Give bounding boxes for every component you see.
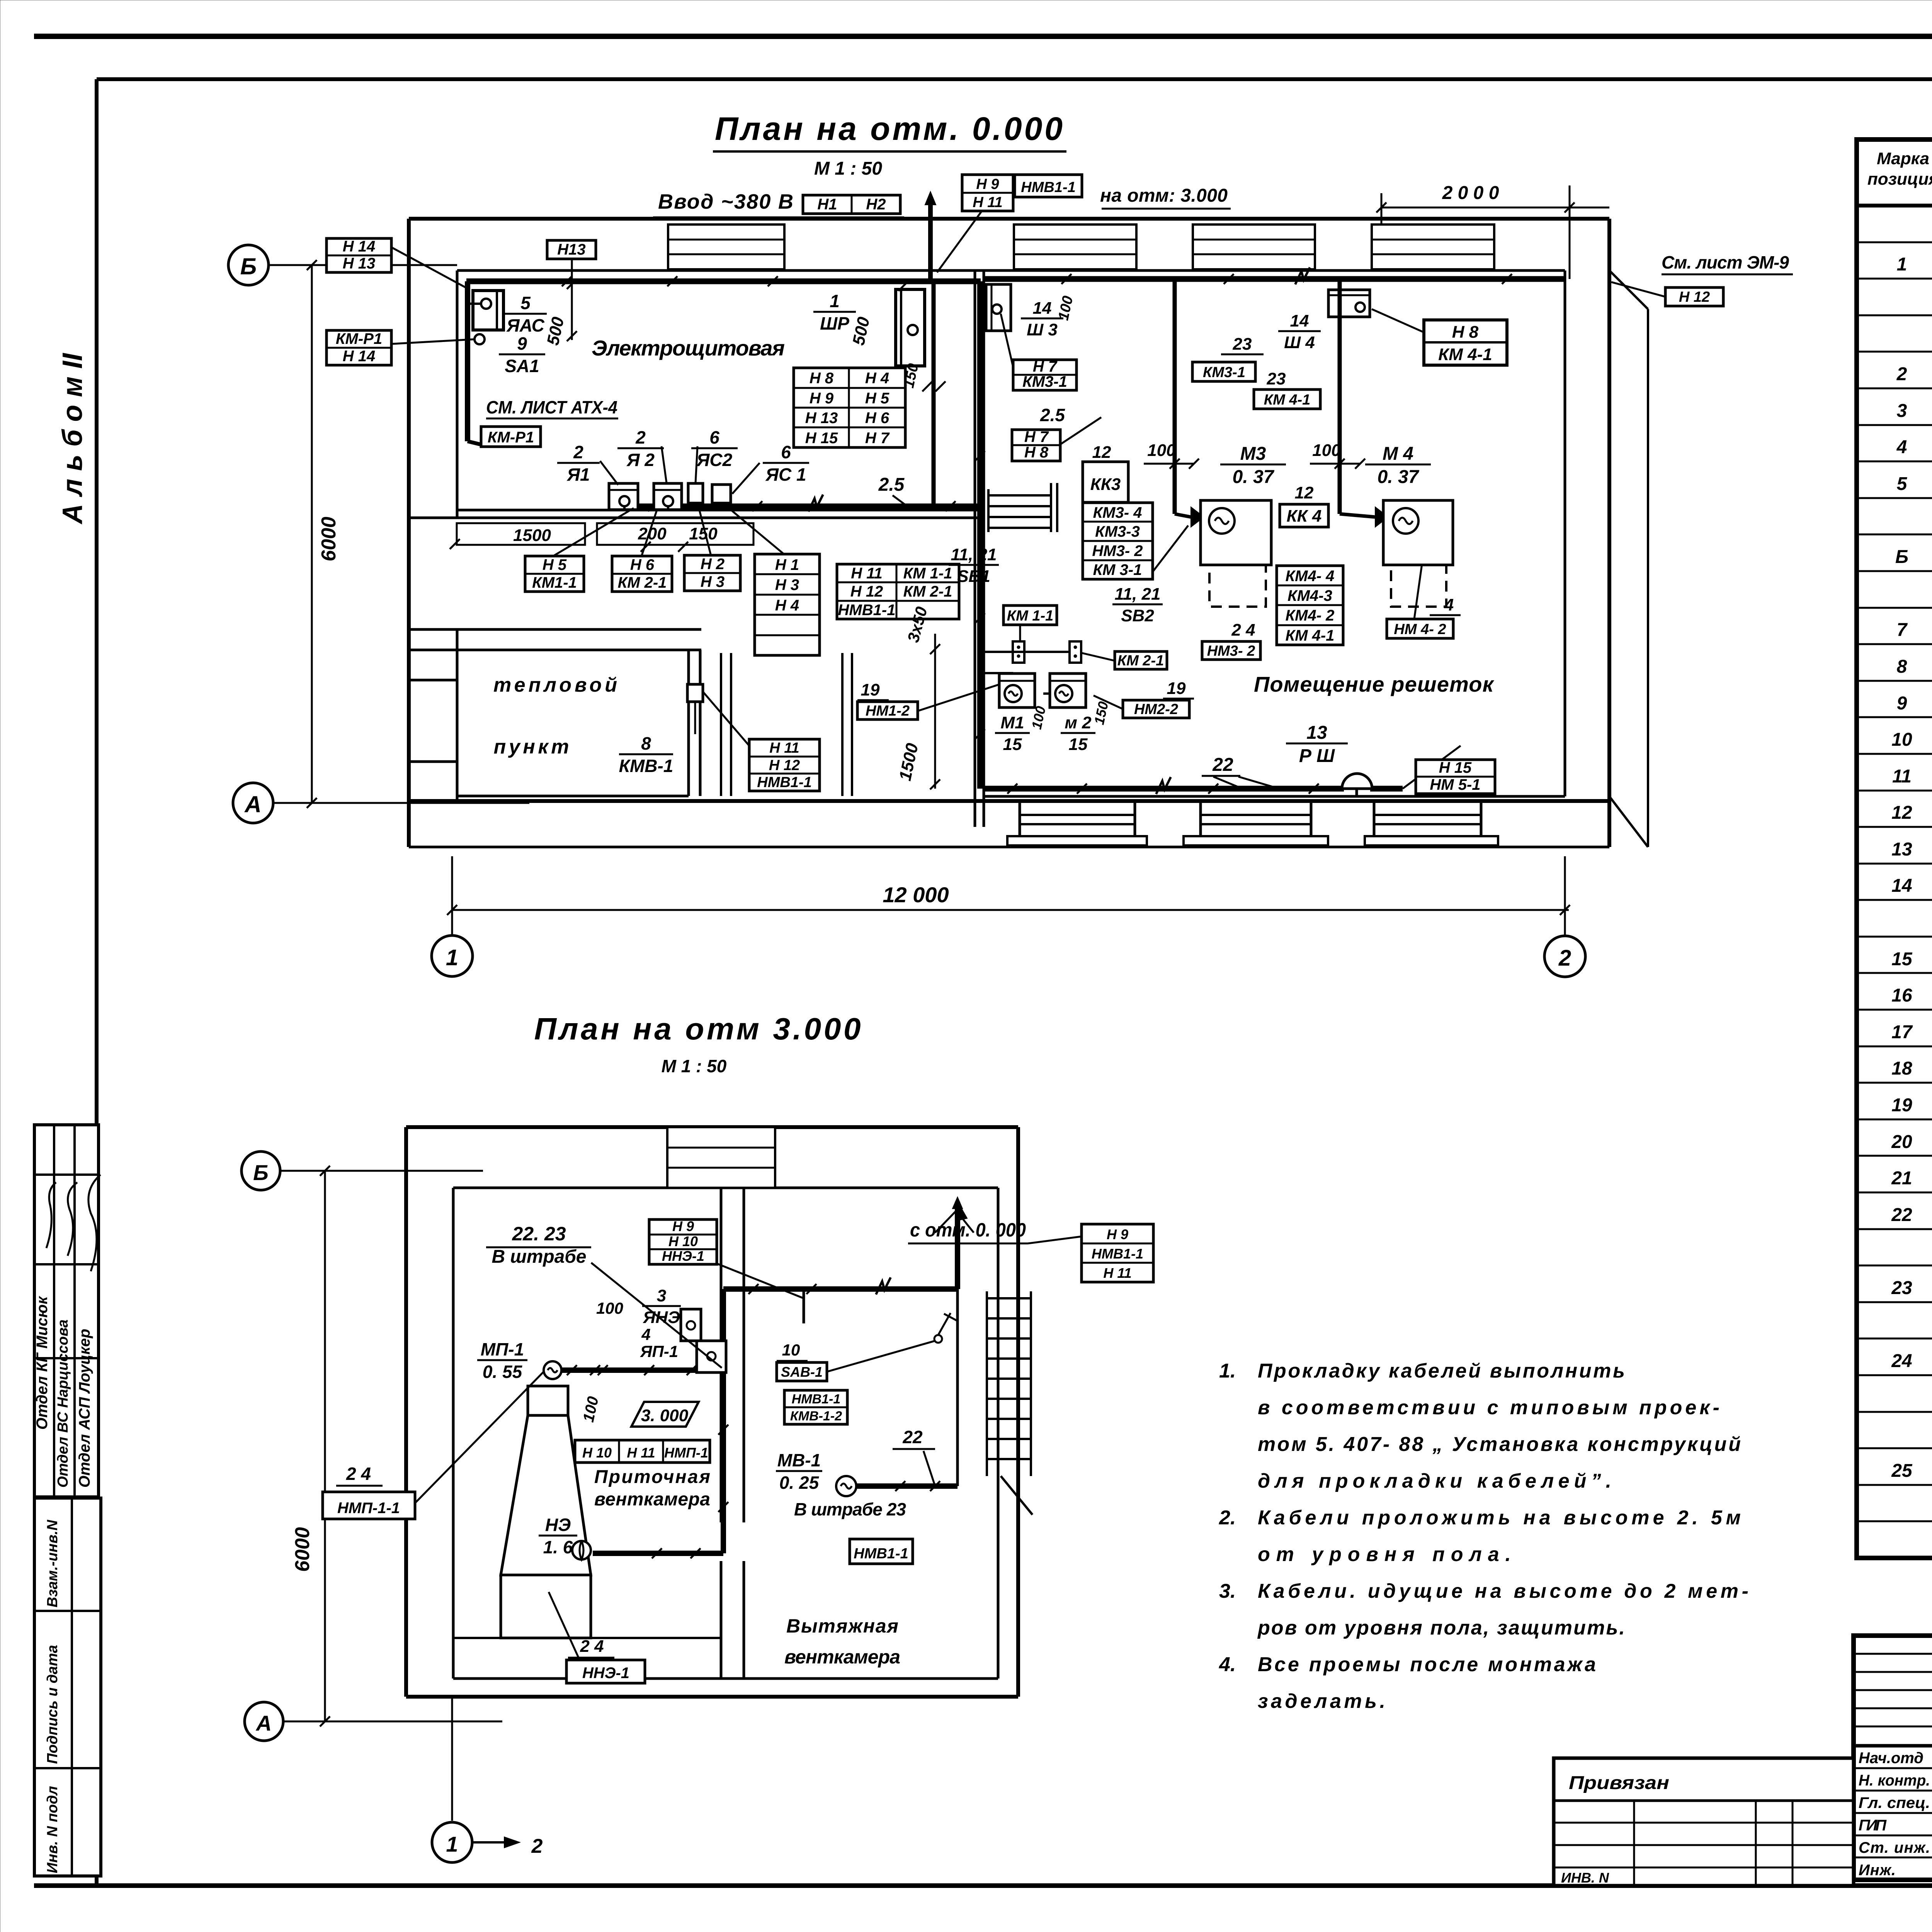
svg-text:НМВ1-1: НМВ1-1 <box>838 602 896 619</box>
svg-text:1: 1 <box>446 945 458 970</box>
table row 6: Я 5III-3574 УХЛ4 <box>1897 399 1932 421</box>
svg-text:3: 3 <box>657 1286 666 1305</box>
svg-text:Вытяжная: Вытяжная <box>786 1615 898 1637</box>
vvod boxes N1 N2 <box>803 195 900 214</box>
device Ya1 <box>609 483 638 510</box>
label M2/15 <box>1061 713 1095 754</box>
sheet bottom frame line <box>34 1883 1932 1888</box>
label 5/YaAS <box>504 293 547 335</box>
svg-text:ШР: ШР <box>820 313 849 333</box>
svg-text:НМ2-2: НМ2-2 <box>1134 701 1178 718</box>
svg-text:заделать.: заделать. <box>1258 1690 1385 1713</box>
svg-text:ЯС 1: ЯС 1 <box>765 464 806 485</box>
svg-text:2.5: 2.5 <box>878 474 905 495</box>
svg-text:КМ 1-1: КМ 1-1 <box>1007 608 1054 624</box>
plan1 grate group 3 <box>1365 801 1498 845</box>
sheet top border line <box>34 34 1932 39</box>
svg-text:Ввод ~380 В: Ввод ~380 В <box>658 190 793 213</box>
plan2 left wall inner <box>452 1188 455 1679</box>
label MV-1/0.25 <box>776 1450 822 1493</box>
svg-text:Н 2: Н 2 <box>701 556 724 573</box>
notes text block <box>1219 1360 1748 1713</box>
plan1 window 2 <box>1014 224 1136 269</box>
box KM3 group <box>1083 503 1153 579</box>
motor M2 box <box>1050 673 1086 707</box>
svg-text:КМ4-3: КМ4-3 <box>1287 587 1332 604</box>
axis line B plan2 <box>280 1170 483 1172</box>
svg-text:8: 8 <box>1897 656 1907 677</box>
table row 2: Шкаф силовой распреде <box>1897 253 1932 275</box>
svg-text:КМ-Р1: КМ-Р1 <box>336 330 382 347</box>
motor unit M3 <box>1201 500 1271 607</box>
svg-text:10: 10 <box>1891 730 1912 750</box>
label box N8 group <box>794 368 905 447</box>
svg-text:Я 2: Я 2 <box>626 450 655 470</box>
svg-text:Н 6: Н 6 <box>865 410 889 427</box>
svg-text:НМВ1-1: НМВ1-1 <box>757 774 811 791</box>
table row 16: Пост управления ПКЕ-722-У2' <box>1892 764 1932 787</box>
svg-text:КМ-Р1: КМ-Р1 <box>488 429 534 446</box>
svg-text:КМ 4-1: КМ 4-1 <box>1264 392 1311 408</box>
svg-text:М 1 : 50: М 1 : 50 <box>814 158 882 179</box>
plan1 porch diagonal bottom <box>1609 796 1648 847</box>
plan2 cable inner wall vertical <box>721 1289 726 1553</box>
table row 8: ЯОУ 9501 - 000 4 Б <box>1897 472 1932 494</box>
plan2 inner wall <box>720 1188 723 1522</box>
svg-text:КК3: КК3 <box>1090 475 1121 494</box>
svg-text:Прокладку кабелей выполнит: Прокладку кабелей выполнить <box>1258 1360 1625 1382</box>
svg-text:100: 100 <box>1147 441 1176 460</box>
svg-text:2: 2 <box>1896 364 1907 384</box>
box N2/N3 <box>684 555 740 591</box>
plan1 grate group 1 <box>1007 801 1147 845</box>
plan1 window 1 <box>668 224 784 269</box>
motor M4 <box>1393 508 1418 534</box>
svg-text:Привязан: Привязан <box>1569 1773 1669 1793</box>
svg-text:2 0 0 0: 2 0 0 0 <box>1442 183 1499 203</box>
svg-text:4: 4 <box>1896 437 1907 457</box>
frame top horizontal <box>97 77 1932 81</box>
svg-text:Н 15: Н 15 <box>805 430 838 447</box>
svg-text:6: 6 <box>781 442 791 462</box>
svg-text:НМВ1-1: НМВ1-1 <box>792 1392 841 1406</box>
svg-text:том 5. 407- 88 „ Установка: том 5. 407- 88 „ Установка конструкций <box>1258 1433 1741 1456</box>
plan1 corridor wall <box>841 653 844 796</box>
svg-text:18: 18 <box>1891 1058 1912 1079</box>
svg-text:КМ 2-1: КМ 2-1 <box>1117 653 1164 669</box>
svg-text:М3: М3 <box>1240 444 1266 464</box>
svg-text:2 4: 2 4 <box>580 1637 604 1656</box>
table row 27: Стойка К310 У3 <box>1891 1167 1932 1189</box>
svg-text:22: 22 <box>1212 755 1233 775</box>
svg-text:А: А <box>255 1711 272 1735</box>
svg-text:9: 9 <box>517 333 527 354</box>
svg-text:14: 14 <box>1290 311 1309 330</box>
svg-text:1: 1 <box>446 1832 458 1856</box>
table row 30: Труба полиэтиленовая <box>1891 1276 1932 1299</box>
svg-text:8: 8 <box>641 733 651 753</box>
svg-text:Н 12: Н 12 <box>1679 289 1710 305</box>
switch SAB-1 on wall <box>934 1313 957 1343</box>
svg-text:15: 15 <box>1891 949 1913 969</box>
cable elektro bottom run <box>624 503 981 509</box>
plan1 stair hatch <box>988 483 1057 532</box>
device drops to cable <box>623 506 626 510</box>
svg-text:Взам.-инв.N: Взам.-инв.N <box>44 1519 61 1607</box>
svg-text:КМ 2-1: КМ 2-1 <box>903 583 952 600</box>
table header texts <box>1867 149 1932 200</box>
svg-text:100: 100 <box>596 1299 623 1317</box>
svg-text:Ш 3: Ш 3 <box>1027 320 1058 339</box>
plan1 teplo right wall <box>687 650 690 796</box>
svg-text:Н 11: Н 11 <box>973 194 1002 211</box>
mark 3.000 <box>631 1402 699 1427</box>
svg-text:2.5: 2.5 <box>1040 405 1065 425</box>
svg-text:ЯАС: ЯАС <box>506 315 544 335</box>
label box N13 <box>547 240 596 259</box>
svg-text:Н 10: Н 10 <box>668 1233 698 1249</box>
label 11,21 SB2 <box>1112 585 1163 625</box>
plan2 left wall outer <box>404 1127 408 1697</box>
box N9/NMV1-1/N11 right <box>1082 1224 1153 1282</box>
svg-text:НМ 5-1: НМ 5-1 <box>1430 776 1480 793</box>
plan1 top wall outer <box>409 217 1609 221</box>
box KM2-1 <box>1115 651 1167 669</box>
plan2 top wall inner <box>453 1187 998 1189</box>
svg-text:Н 7: Н 7 <box>1033 358 1058 375</box>
cable reshetki bottom run <box>984 786 1344 792</box>
svg-text:Р Ш: Р Ш <box>1299 746 1335 766</box>
svg-text:Н 12: Н 12 <box>850 583 883 600</box>
label M1/15 <box>995 713 1030 754</box>
svg-text:Н 6: Н 6 <box>630 556 655 573</box>
svg-text:Н 5: Н 5 <box>865 390 889 407</box>
svg-text:0. 25: 0. 25 <box>779 1473 820 1493</box>
svg-text:в соответствии с типовым п: в соответствии с типовым проек- <box>1258 1396 1719 1419</box>
svg-text:КМ4- 4: КМ4- 4 <box>1286 568 1335 585</box>
svg-text:КМ 1-1: КМ 1-1 <box>903 565 952 582</box>
plan1 right wall outer <box>1607 219 1611 847</box>
svg-text:22: 22 <box>902 1427 923 1447</box>
svg-text:13: 13 <box>1891 839 1912 860</box>
left stamp signatures <box>46 1182 56 1248</box>
svg-text:М1: М1 <box>1000 713 1024 732</box>
svg-text:SAB-1: SAB-1 <box>781 1364 823 1380</box>
label M3/0.37 <box>1220 444 1286 487</box>
svg-text:пункт: пункт <box>494 736 569 758</box>
post SB2 <box>1070 641 1081 663</box>
svg-text:ГИП: ГИП <box>1859 1817 1887 1834</box>
svg-text:ЯНЭ: ЯНЭ <box>643 1308 680 1327</box>
plan2 top wall outer <box>406 1125 1018 1129</box>
axis circle B plan1 <box>228 245 269 285</box>
plan2 window <box>667 1127 775 1188</box>
connections M1 M2 SB <box>980 651 1070 653</box>
label 14/Sh4 <box>1278 311 1321 352</box>
cabinet ShR <box>896 289 925 366</box>
svg-text:2 4: 2 4 <box>346 1464 371 1484</box>
svg-text:Н 9: Н 9 <box>1107 1226 1128 1242</box>
svg-text:НМ3- 2: НМ3- 2 <box>1092 543 1143 560</box>
box N12 <box>1665 287 1723 306</box>
svg-text:2 4: 2 4 <box>1231 621 1255 639</box>
svg-text:Н 10: Н 10 <box>582 1445 612 1461</box>
svg-text:КМ3-3: КМ3-3 <box>1095 523 1140 540</box>
svg-text:23: 23 <box>1267 369 1286 388</box>
svg-text:24: 24 <box>1891 1351 1912 1371</box>
label 3/YaNE <box>642 1286 681 1327</box>
svg-text:1.: 1. <box>1219 1360 1236 1382</box>
box N7/N8 <box>1012 429 1060 461</box>
motor M1 box <box>999 673 1035 707</box>
svg-text:А: А <box>244 791 261 817</box>
svg-text:2: 2 <box>1558 946 1571 971</box>
svg-text:1: 1 <box>1897 254 1907 275</box>
plan1 vertical dim line 6000 <box>311 265 313 803</box>
svg-text:МВ-1: МВ-1 <box>777 1450 821 1470</box>
svg-text:16: 16 <box>1891 985 1912 1006</box>
plan1 teplo bottom inner <box>457 795 689 798</box>
label 1/ShR <box>813 291 856 333</box>
table row 28: Скобы разные т <box>1891 1203 1932 1225</box>
cable top run right <box>984 276 1565 282</box>
svg-text:См. лист ЭМ-9: См. лист ЭМ-9 <box>1662 252 1789 272</box>
svg-text:19: 19 <box>1167 679 1186 698</box>
svg-text:позиция: позиция <box>1867 170 1932 189</box>
svg-text:Н 1: Н 1 <box>775 556 799 573</box>
svg-text:Отдел ВС Нарциссова: Отдел ВС Нарциссова <box>55 1320 71 1488</box>
svg-text:ЯП-1: ЯП-1 <box>640 1342 678 1361</box>
label 6/YaS1 <box>763 442 809 485</box>
svg-text:Н 8: Н 8 <box>1024 444 1049 461</box>
box N15/NM5-1 <box>1416 759 1495 794</box>
svg-text:0. 55: 0. 55 <box>483 1362 523 1382</box>
svg-text:Н1: Н1 <box>817 196 837 213</box>
svg-text:В штрабе 23: В штрабе 23 <box>794 1499 906 1519</box>
table row 32: Металлорукав <box>1891 1349 1932 1372</box>
cable elektro wall drop <box>932 281 936 506</box>
svg-text:Н 8: Н 8 <box>810 370 834 387</box>
plan1 window 4 <box>1372 224 1494 269</box>
dim strip 200 150 <box>597 523 753 545</box>
box N8/KM4-1 right <box>1424 320 1507 365</box>
svg-text:7: 7 <box>1897 620 1908 640</box>
label 23/KM4-1 <box>1255 369 1298 389</box>
box KM1-1 right <box>1003 605 1057 625</box>
svg-text:6000: 6000 <box>318 517 340 561</box>
svg-text:20: 20 <box>1891 1132 1912 1152</box>
leader lines to boxes <box>553 508 634 556</box>
svg-text:КМ3- 4: КМ3- 4 <box>1093 504 1142 521</box>
svg-text:Электрощитовая: Электрощитовая <box>592 336 785 360</box>
plan2 pritochnaya floor line <box>453 1637 721 1639</box>
svg-text:12: 12 <box>1891 803 1912 823</box>
svg-text:Н2: Н2 <box>866 196 886 213</box>
svg-text:Н 9: Н 9 <box>976 176 999 192</box>
svg-text:ННЭ-1: ННЭ-1 <box>662 1248 704 1264</box>
specification table grid <box>1857 139 1932 1558</box>
svg-text:ЯС2: ЯС2 <box>696 450 733 470</box>
svg-text:Ш 4: Ш 4 <box>1284 333 1315 352</box>
svg-text:КМ4- 2: КМ4- 2 <box>1286 607 1335 624</box>
axis circle 1 plan1 <box>451 856 453 935</box>
svg-text:Гл. спец.: Гл. спец. <box>1859 1794 1930 1811</box>
svg-text:Марка: Марка <box>1877 149 1929 168</box>
svg-text:м 2: м 2 <box>1065 713 1092 732</box>
svg-text:Н 4: Н 4 <box>865 370 889 387</box>
box NMV1-1/KMV-1-2 <box>784 1390 847 1424</box>
plan1 teplo pillar top-left <box>409 629 457 680</box>
title block left small grid <box>1854 1636 1932 1880</box>
svg-text:Подпись и дата: Подпись и дата <box>44 1645 61 1764</box>
box NMV1-1 lower <box>850 1539 913 1564</box>
box N6/KM2-1 <box>612 556 672 592</box>
axis circle A plan2 <box>245 1702 283 1741</box>
svg-text:венткамера: венткамера <box>784 1646 900 1668</box>
plan2 cable corner drop <box>955 1202 960 1289</box>
svg-text:Н 13: Н 13 <box>805 410 838 427</box>
device KMV-1 box <box>687 684 703 702</box>
table row 10: ЯБПВУ- 1М <box>1895 545 1932 568</box>
svg-text:2: 2 <box>573 442 583 462</box>
dim strip 1500 <box>457 523 585 545</box>
svg-text:НМВ1-1: НМВ1-1 <box>1092 1246 1143 1262</box>
box N9/N10/NNE-1 <box>649 1218 717 1264</box>
svg-text:4: 4 <box>641 1325 650 1344</box>
plan1 left wall outer <box>407 219 411 847</box>
plan1 grate group 2 <box>1184 801 1328 845</box>
svg-text:10: 10 <box>782 1341 800 1359</box>
plan1 left wall inner <box>456 270 459 518</box>
svg-text:Н 15: Н 15 <box>1439 759 1472 776</box>
label MP-1/0.55 <box>477 1339 527 1382</box>
svg-text:Помещение решеток: Помещение решеток <box>1254 672 1495 696</box>
socket dome RSh <box>1342 774 1372 789</box>
box KM4 group <box>1277 566 1343 645</box>
svg-text:НМ 4- 2: НМ 4- 2 <box>1394 621 1446 638</box>
left stamp upper table <box>34 1125 99 1497</box>
plan1 middle wall vertical <box>974 270 976 827</box>
device Ya2 <box>654 483 682 510</box>
arrow to 2 <box>472 1841 514 1844</box>
svg-text:25: 25 <box>1891 1461 1913 1481</box>
svg-text:Н 11: Н 11 <box>851 565 883 582</box>
box N11/N12/NMV1-1 teplo <box>749 739 820 791</box>
svg-text:SB2: SB2 <box>1121 606 1154 625</box>
svg-text:Н13: Н13 <box>557 241 585 258</box>
plan1 right wall inner <box>1564 270 1566 796</box>
svg-text:1: 1 <box>830 291 840 311</box>
plan2 stair ladder <box>987 1291 1032 1515</box>
plan2 axis 1 drop <box>451 1697 453 1821</box>
svg-text:Б: Б <box>240 253 257 279</box>
svg-text:22: 22 <box>1891 1205 1912 1225</box>
svg-text:Н 7: Н 7 <box>1024 429 1049 446</box>
cable elektro left vertical <box>465 281 470 441</box>
svg-text:Н 14: Н 14 <box>343 348 376 365</box>
svg-text:Н 8: Н 8 <box>1452 323 1479 342</box>
top boxes N9/N11 <box>962 175 1013 211</box>
svg-text:Инв. N подл: Инв. N подл <box>44 1786 61 1873</box>
label 14/Sh3 <box>1021 299 1063 339</box>
cabinet YaAS <box>466 291 503 330</box>
svg-text:А л ь б о м II: А л ь б о м II <box>57 352 88 524</box>
device YaS2 <box>688 483 703 503</box>
plan1 teplo top wall <box>409 628 701 631</box>
axis circle 1 plan2 <box>432 1822 472 1862</box>
svg-text:Я1: Я1 <box>566 464 590 485</box>
table row 5: Я5III-2674 УХЛ4 <box>1896 362 1932 385</box>
axis circle A plan1 <box>233 783 273 823</box>
box N7/KM3-1 <box>1013 358 1077 390</box>
plan1 shaft wall <box>720 653 722 796</box>
switch SA1 <box>474 334 485 344</box>
svg-text:Приточная: Приточная <box>594 1467 710 1487</box>
cable top run left <box>466 279 981 284</box>
svg-text:Н 9: Н 9 <box>810 390 834 407</box>
table row 22: Полка кабельная К1161У3 <box>1891 984 1932 1006</box>
table row 26: Муфта ТР 5 У3 <box>1891 1130 1932 1152</box>
svg-text:Н 3: Н 3 <box>775 577 799 594</box>
table row 21: Стойка кабельная К1150У3 <box>1891 947 1932 969</box>
svg-text:Н 12: Н 12 <box>769 757 800 774</box>
left stamp lower table <box>34 1498 101 1876</box>
svg-text:КМВ-1: КМВ-1 <box>619 756 673 776</box>
plan1 teplo left wall inner <box>456 650 459 796</box>
plan2 right wall outer <box>1016 1127 1020 1697</box>
svg-text:2: 2 <box>531 1835 543 1857</box>
flag M4 <box>1375 507 1388 527</box>
svg-text:Ст. инж.: Ст. инж. <box>1859 1839 1930 1856</box>
svg-text:План на отм 3.000: План на отм 3.000 <box>534 1012 861 1046</box>
cable vvod leader <box>937 201 989 272</box>
svg-text:6000: 6000 <box>291 1527 314 1572</box>
svg-text:НЭ: НЭ <box>545 1515 571 1535</box>
svg-text:1500: 1500 <box>513 526 551 545</box>
svg-text:М 1 : 50: М 1 : 50 <box>662 1056 727 1076</box>
fan circle <box>572 1541 591 1560</box>
plan1 pillar bottom-left <box>409 762 457 801</box>
svg-text:КК 4: КК 4 <box>1287 507 1322 526</box>
svg-text:19: 19 <box>861 680 880 699</box>
svg-text:КМ 4-1: КМ 4-1 <box>1286 627 1335 644</box>
fan unit box <box>528 1386 568 1415</box>
svg-text:КМ3-1: КМ3-1 <box>1022 373 1067 390</box>
cabinet Sh4 <box>1328 290 1370 317</box>
svg-text:12: 12 <box>1092 443 1111 462</box>
label 8/KMV-1 <box>619 733 673 776</box>
svg-text:14: 14 <box>1891 876 1912 896</box>
svg-text:НМВ1-1: НМВ1-1 <box>1021 179 1075 196</box>
label 6/YaS2 <box>691 427 738 470</box>
flag M3 <box>1191 507 1204 527</box>
svg-text:3: 3 <box>1897 401 1907 421</box>
svg-text:3. 000: 3. 000 <box>641 1406 689 1425</box>
svg-text:Б: Б <box>253 1160 269 1185</box>
svg-text:0. 37: 0. 37 <box>1233 467 1275 487</box>
svg-text:НМВ1-1: НМВ1-1 <box>854 1546 908 1562</box>
label 13/RSh <box>1286 723 1348 766</box>
svg-text:КМ3-1: КМ3-1 <box>1203 364 1245 381</box>
svg-text:КМ 3-1: КМ 3-1 <box>1093 561 1142 578</box>
table row 19: Шкаф управления <box>1891 869 1932 897</box>
svg-text:15: 15 <box>1003 735 1022 754</box>
box N1/N3/N4 <box>755 554 820 655</box>
cabinet Sh3 <box>986 284 1011 331</box>
plan1 bottom band line <box>409 799 1609 803</box>
cable drop M3 <box>1173 279 1177 514</box>
plan2 cable top horizontal <box>723 1286 957 1292</box>
